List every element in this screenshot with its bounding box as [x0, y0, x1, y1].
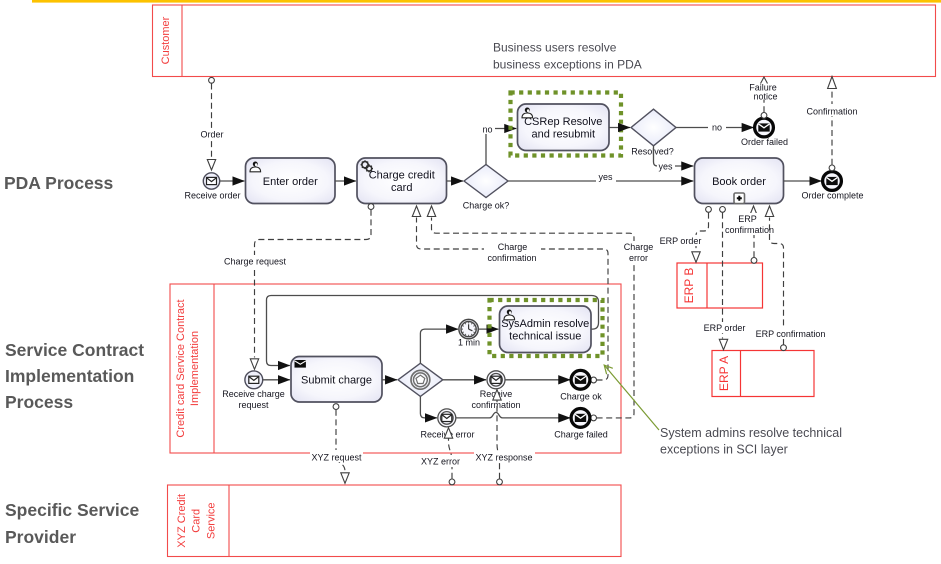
lane Customer [153, 5, 936, 77]
gateway Charge ok? [464, 165, 508, 198]
svg-text:ERP B: ERP B [682, 268, 696, 304]
svg-text:Customer: Customer [160, 16, 172, 64]
top yellow rule [32, 0, 941, 3]
svg-text:confirmation: confirmation [725, 225, 774, 235]
svg-text:error: error [629, 253, 648, 263]
svg-text:1 min: 1 min [458, 338, 480, 348]
svg-text:Receive charge: Receive charge [222, 389, 285, 399]
sequence flow Receive charge request to Submit charge [263, 379, 290, 381]
message flow XYZ response [474, 390, 535, 485]
svg-text:Confirmation: Confirmation [806, 107, 857, 117]
svg-text:exceptions in SCI layer: exceptions in SCI layer [660, 443, 788, 457]
svg-text:Charge credit: Charge credit [369, 170, 435, 182]
annotation arrow pointing to SysAdmin highlight [604, 365, 659, 430]
svg-text:Process: Process [5, 392, 73, 412]
svg-text:Charge ok?: Charge ok? [463, 201, 510, 211]
svg-text:Order: Order [200, 130, 223, 140]
data store ERP B [677, 263, 763, 308]
sequence flow Enter order to Charge credit card [335, 180, 356, 182]
svg-text:Charge: Charge [498, 242, 528, 252]
svg-text:PDA Process: PDA Process [4, 173, 114, 193]
svg-text:Charge request: Charge request [224, 257, 287, 267]
message flow ERP confirmation from ERP B [724, 206, 774, 263]
svg-text:Implementation: Implementation [189, 331, 201, 406]
svg-text:Book order: Book order [712, 176, 766, 188]
label Service Contract Implementation Process [5, 340, 144, 412]
svg-text:business exceptions in PDA: business exceptions in PDA [493, 58, 642, 72]
svg-text:ERP confirmation: ERP confirmation [756, 329, 826, 339]
sequence flow loopback SysAdmin to Submit charge [267, 296, 599, 366]
message flow Order [198, 77, 226, 170]
svg-text:Card: Card [191, 509, 203, 533]
svg-text:Enter order: Enter order [263, 176, 318, 188]
message flow ERP order to ERP B [659, 207, 711, 263]
message flow XYZ error [417, 428, 464, 485]
lane XYZ Credit Card Service [168, 485, 622, 557]
message flow Charge request [222, 204, 374, 370]
svg-text:notice: notice [753, 91, 777, 101]
sequence flow yes: Resolved down to Book order [654, 146, 694, 172]
message flow Failure notice [749, 77, 777, 118]
sequence flow gateway up to timer [420, 329, 458, 363]
message flow Charge confirmation [412, 206, 608, 383]
svg-text:Business users resolve: Business users resolve [493, 41, 617, 55]
sequence flow no: gateway up to CSRep task [480, 124, 516, 165]
sequence flow Submit charge to event gateway [382, 379, 397, 381]
intermediate catch event Receive error [438, 409, 456, 427]
svg-text:card: card [391, 182, 412, 194]
sequence flow Charge credit card to gateway [447, 180, 464, 182]
svg-text:Order failed: Order failed [741, 137, 788, 147]
svg-text:Provider: Provider [5, 527, 76, 547]
start event Receive order [203, 173, 219, 189]
svg-text:Credit card Service Contract: Credit card Service Contract [175, 299, 187, 437]
timer intermediate event 1 min [459, 319, 478, 338]
end event Order failed [755, 118, 774, 137]
gateway event gateway [398, 363, 443, 396]
task CSRep Resolve and resubmit [518, 104, 610, 151]
green dotted highlight box around CSRep task [511, 93, 622, 156]
sequence flow Receive confirmation to Charge ok [505, 379, 570, 381]
svg-text:Specific Service: Specific Service [5, 500, 140, 520]
svg-text:ERP A: ERP A [717, 356, 731, 391]
svg-text:confirmation: confirmation [471, 400, 520, 410]
annotation: business users resolve [493, 41, 642, 72]
end event Charge ok [571, 370, 590, 389]
sequence flow Book order to Order complete [784, 180, 822, 182]
sequence flow Receive order to Enter order [220, 180, 244, 182]
task Book order [695, 158, 784, 204]
svg-text:XYZ request: XYZ request [311, 453, 362, 463]
svg-text:System admins resolve technica: System admins resolve technical [660, 426, 842, 440]
gateway Resolved? [631, 109, 676, 146]
message flow XYZ request [310, 404, 363, 484]
svg-text:request: request [238, 400, 269, 410]
sequence flow gateway to Receive confirmation [443, 379, 486, 381]
end event Order complete [823, 172, 842, 191]
sequence flow gateway down to Receive error [420, 396, 437, 418]
sequence flow Receive error to Charge failed with line hop [456, 412, 570, 418]
event gateway inner pentagon [411, 370, 430, 389]
message flow Confirmation [806, 77, 859, 171]
label Specific Service Provider [5, 500, 140, 547]
svg-text:Charge: Charge [624, 242, 654, 252]
svg-text:ERP order: ERP order [660, 236, 702, 246]
svg-text:yes: yes [598, 172, 613, 182]
svg-text:Implementation: Implementation [5, 366, 134, 386]
green dotted highlight box around SysAdmin task [490, 300, 603, 356]
task SysAdmin resolve technical issue [500, 306, 592, 353]
svg-text:ERP: ERP [738, 214, 757, 224]
lane Credit card Service Contract Implementation [170, 284, 621, 453]
data store ERP A [712, 351, 814, 397]
start event Receive charge request [245, 371, 263, 389]
message flow Charge error [427, 206, 658, 421]
svg-text:Service: Service [206, 502, 218, 539]
svg-text:Service Contract: Service Contract [5, 340, 144, 360]
svg-text:Resolved?: Resolved? [631, 147, 674, 157]
sequence flow no: Resolved to Order failed [676, 122, 754, 133]
end event Charge failed [571, 409, 590, 428]
svg-text:yes: yes [658, 162, 673, 172]
svg-text:Charge failed: Charge failed [554, 430, 608, 440]
sequence flow CSRep to Resolved gateway [609, 127, 630, 129]
svg-text:Submit charge: Submit charge [301, 374, 372, 386]
svg-text:Receive order: Receive order [184, 191, 240, 201]
svg-text:ERP order: ERP order [704, 323, 746, 333]
svg-text:XYZ Credit: XYZ Credit [176, 494, 188, 548]
svg-text:and resubmit: and resubmit [531, 129, 595, 141]
svg-text:no: no [712, 123, 722, 133]
svg-text:Order complete: Order complete [801, 191, 863, 201]
svg-text:technical issue: technical issue [509, 331, 581, 343]
svg-text:XYZ response: XYZ response [475, 453, 532, 463]
svg-text:XYZ error: XYZ error [421, 457, 460, 467]
message flow ERP confirmation from ERP A [756, 206, 826, 351]
svg-text:no: no [482, 125, 492, 135]
sequence flow yes: Charge ok gateway to Book order [508, 172, 693, 182]
svg-text:CSRep Resolve: CSRep Resolve [524, 116, 602, 128]
task Charge credit card [357, 158, 447, 204]
intermediate catch event Receive confirmation [487, 371, 505, 389]
annotation: system admins resolve [660, 426, 842, 457]
task Enter order [246, 158, 336, 204]
sequence flow timer to SysAdmin task [479, 328, 499, 330]
subprocess marker on Book order [734, 193, 745, 204]
svg-text:Charge ok: Charge ok [560, 392, 602, 402]
svg-text:confirmation: confirmation [487, 253, 536, 263]
message flow ERP order to ERP A [703, 207, 747, 350]
task Submit charge [291, 357, 382, 403]
